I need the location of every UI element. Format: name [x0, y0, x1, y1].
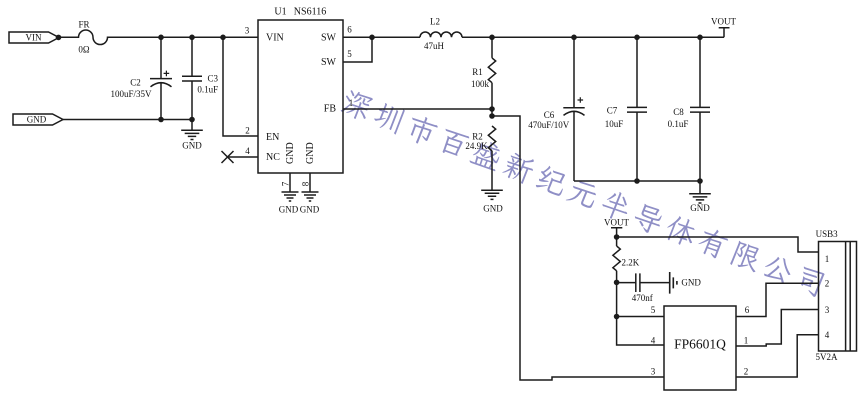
svg-text:47uH: 47uH	[424, 41, 445, 51]
svg-text:470nf: 470nf	[632, 293, 653, 303]
svg-text:VOUT: VOUT	[604, 218, 629, 228]
svg-text:2: 2	[825, 279, 830, 289]
svg-text:GND: GND	[285, 142, 296, 164]
svg-text:EN: EN	[266, 132, 279, 143]
svg-text:4: 4	[651, 336, 656, 346]
svg-text:0.1uF: 0.1uF	[668, 119, 689, 129]
svg-text:GND: GND	[279, 205, 299, 215]
svg-text:100uF/35V: 100uF/35V	[110, 89, 152, 99]
svg-text:GND: GND	[182, 140, 202, 150]
svg-text:7: 7	[281, 181, 291, 186]
svg-text:C2: C2	[130, 77, 141, 87]
svg-text:0.1uF: 0.1uF	[197, 84, 218, 94]
svg-text:GND: GND	[305, 142, 316, 164]
svg-text:NS6116: NS6116	[294, 6, 326, 17]
svg-text:C8: C8	[673, 107, 684, 117]
svg-text:2: 2	[744, 367, 749, 377]
svg-text:VIN: VIN	[266, 32, 284, 43]
svg-text:USB3: USB3	[816, 229, 839, 239]
svg-text:0Ω: 0Ω	[78, 44, 90, 54]
svg-text:3: 3	[651, 367, 656, 377]
svg-text:FP6601Q: FP6601Q	[674, 337, 726, 352]
svg-text:GND: GND	[681, 278, 701, 288]
svg-text:3: 3	[245, 25, 250, 35]
svg-text:6: 6	[347, 24, 352, 34]
svg-text:R2: R2	[472, 132, 483, 142]
svg-text:GND: GND	[690, 203, 710, 213]
svg-text:100k: 100k	[471, 79, 490, 89]
svg-text:FB: FB	[324, 104, 337, 115]
svg-text:8: 8	[301, 181, 311, 186]
svg-text:24.9K: 24.9K	[465, 141, 488, 151]
svg-text:5: 5	[347, 49, 352, 59]
svg-text:470uF/10V: 470uF/10V	[528, 120, 570, 130]
svg-text:1: 1	[349, 98, 354, 108]
svg-text:VIN: VIN	[26, 33, 42, 43]
svg-text:SW: SW	[321, 33, 337, 44]
svg-text:FR: FR	[78, 19, 89, 29]
svg-text:5V2A: 5V2A	[816, 352, 838, 362]
svg-text:VOUT: VOUT	[711, 17, 736, 27]
svg-text:GND: GND	[300, 205, 320, 215]
svg-text:4: 4	[825, 330, 830, 340]
svg-text:SW: SW	[321, 57, 337, 68]
svg-text:GND: GND	[483, 204, 503, 214]
svg-text:1: 1	[825, 254, 830, 264]
svg-text:U1: U1	[274, 6, 286, 17]
svg-text:4: 4	[245, 146, 250, 156]
svg-text:R1: R1	[472, 67, 483, 77]
svg-text:2.2K: 2.2K	[622, 257, 640, 267]
svg-text:6: 6	[745, 305, 750, 315]
svg-text:L2: L2	[430, 16, 440, 26]
svg-text:NC: NC	[266, 152, 280, 163]
svg-text:3: 3	[825, 305, 830, 315]
svg-text:5: 5	[651, 305, 656, 315]
svg-text:C6: C6	[544, 110, 555, 120]
svg-text:1: 1	[744, 336, 749, 346]
svg-text:GND: GND	[27, 115, 47, 125]
svg-text:C3: C3	[208, 73, 219, 83]
svg-text:10uF: 10uF	[605, 119, 624, 129]
svg-text:2: 2	[245, 125, 250, 135]
svg-text:C7: C7	[607, 106, 618, 116]
